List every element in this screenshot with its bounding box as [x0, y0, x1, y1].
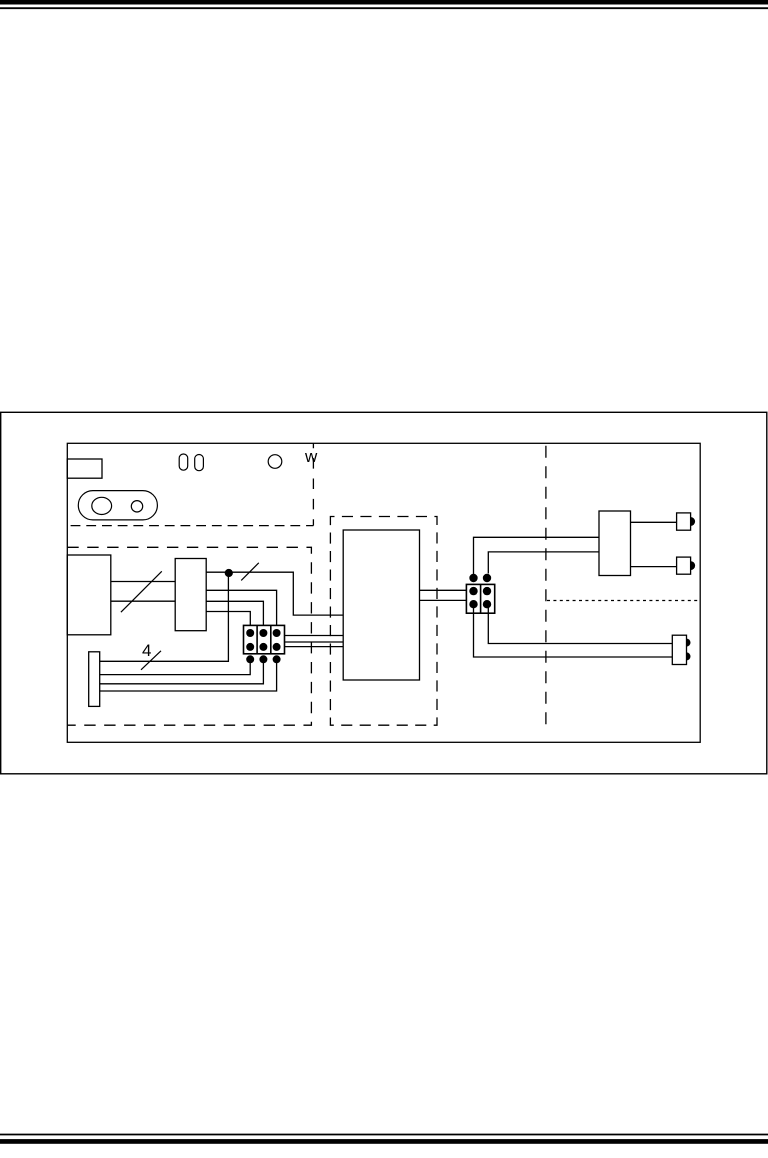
svg-text:w: w [304, 447, 318, 466]
svg-text:4: 4 [142, 641, 151, 660]
